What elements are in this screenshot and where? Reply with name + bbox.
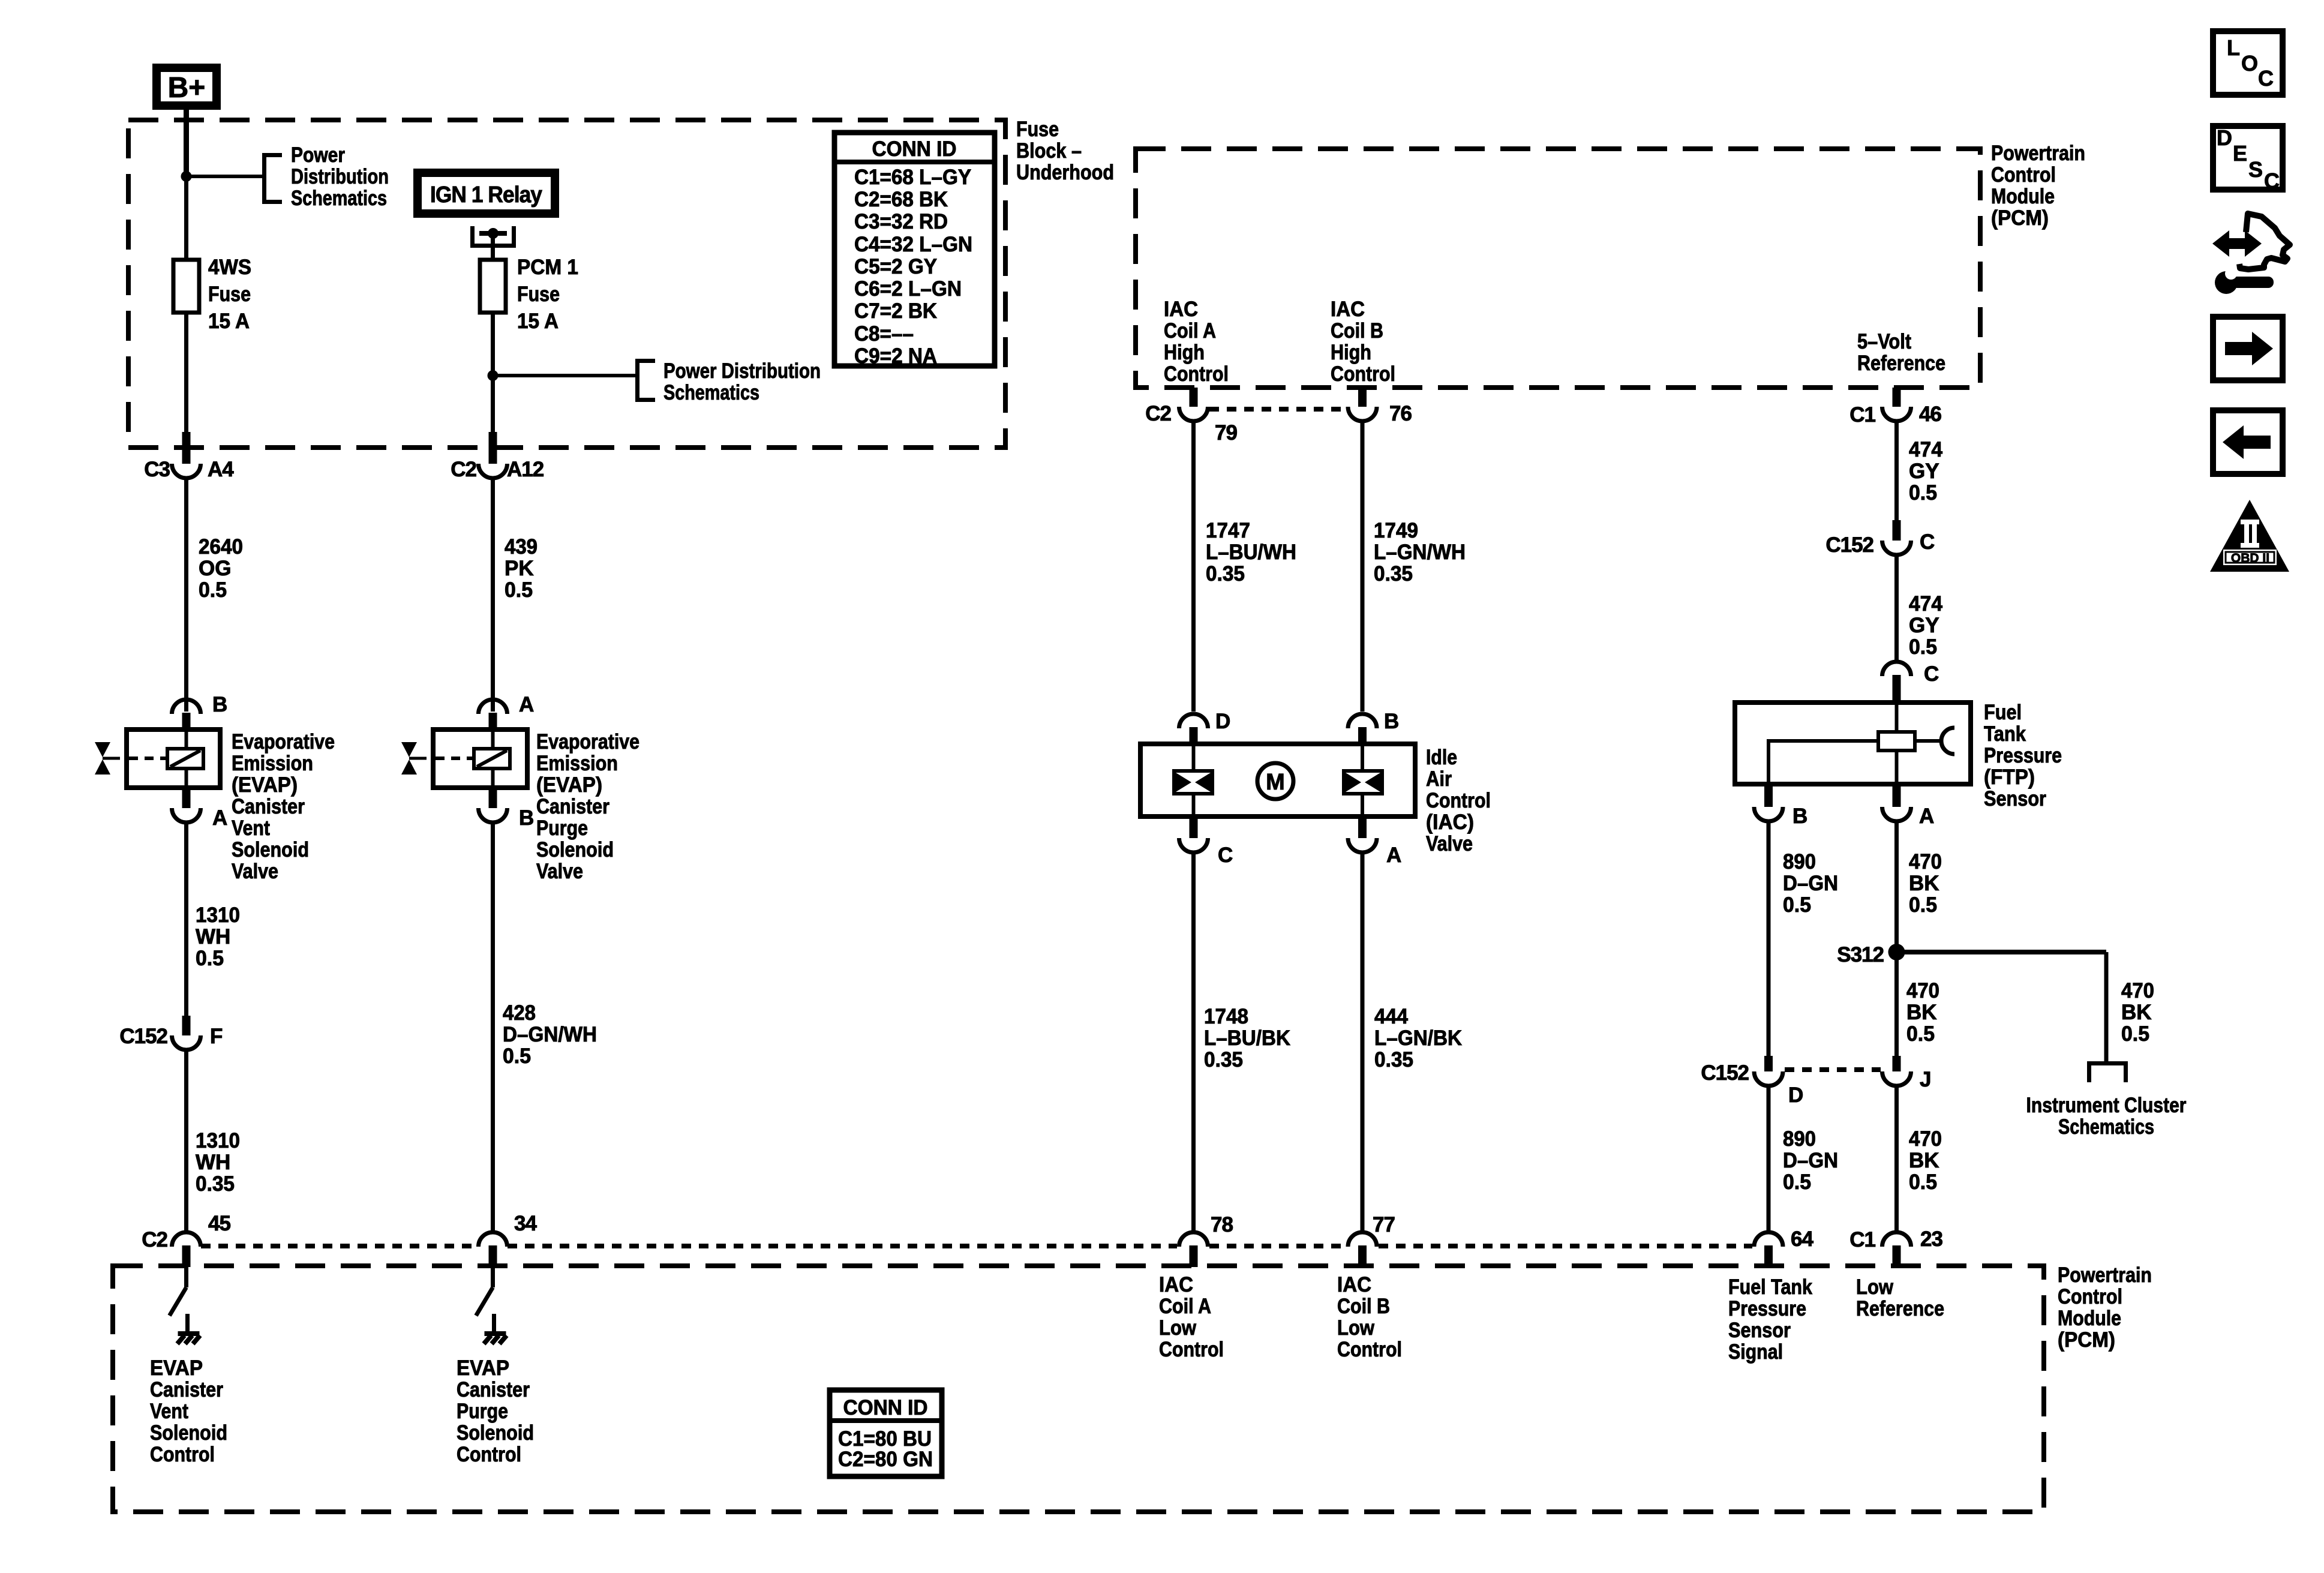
label IAC coil B high control: [1331, 298, 1395, 386]
label 77: [1373, 1213, 1395, 1236]
label idle air control IAC valve: [1426, 746, 1491, 855]
connector pin B of EVAP vent solenoid: [172, 700, 201, 731]
icon back arrow box: [2213, 410, 2283, 474]
svg-text:79: 79: [1215, 421, 1237, 445]
wire 474 GY (PCM 46 to C152 C): [1894, 422, 1899, 520]
icon LOC box: [2213, 31, 2283, 95]
wire 2640 OG (C3 A4 to EVAP vent B): [184, 479, 188, 712]
label wire 470 BK 0.5 (FTP A): [1909, 850, 1942, 917]
connector pin B of EVAP purge solenoid: [479, 788, 508, 822]
label 64: [1791, 1227, 1813, 1251]
svg-text:C3: C3: [144, 458, 170, 481]
wire coil A to pin C: [1192, 794, 1196, 816]
label wire 890 D-GN 0.5 (upper): [1783, 850, 1838, 917]
connector pin B of FTP sensor: [1754, 784, 1783, 821]
svg-text:C2: C2: [142, 1228, 167, 1251]
label A12: [507, 458, 544, 481]
pointer bracket to instrument cluster schematics: [2089, 1064, 2126, 1083]
svg-text:C: C: [1924, 662, 1939, 686]
wire S312 to instrument cluster branch: [1897, 950, 2107, 954]
connector C2 pin 79 at PCM: [1179, 388, 1208, 421]
svg-text:D: D: [1215, 710, 1230, 733]
purge valve symbol: [401, 742, 427, 775]
connector pin A of FTP sensor: [1882, 784, 1911, 821]
svg-text:CONN ID: CONN ID: [843, 1396, 928, 1419]
svg-text:23: 23: [1920, 1227, 1942, 1251]
connector C2 pin A12 below fuse block: [479, 432, 508, 478]
EVAP purge solenoid coil: [474, 749, 510, 769]
vent valve symbol: [95, 742, 120, 775]
label B (EVAP purge): [519, 806, 533, 830]
svg-text:C152: C152: [119, 1025, 167, 1048]
label power distribution schematics (right): [663, 359, 821, 404]
label evaporative emission EVAP canister vent solenoid valve: [232, 730, 335, 883]
powertrain control module PCM dashed box (bottom): [113, 1266, 2044, 1512]
connector pin C of IAC valve: [1179, 816, 1208, 852]
label B (EVAP vent): [212, 693, 227, 716]
svg-text:470BK0.5: 470BK0.5: [1906, 979, 1939, 1046]
svg-text:A12: A12: [507, 458, 544, 481]
label 78: [1211, 1213, 1233, 1236]
svg-text:34: 34: [514, 1212, 537, 1235]
battery positive B+ terminal box: [157, 68, 217, 106]
label C1 (pin 46): [1849, 403, 1875, 427]
inline connector C152 pin D: [1754, 1056, 1783, 1086]
connector C2 pin 45 at PCM bottom: [172, 1232, 201, 1267]
wire 474 GY (C152 to FTP C): [1894, 556, 1899, 661]
pin row dotted line 79-76: [1209, 407, 1347, 412]
label low reference: [1856, 1275, 1944, 1320]
label wire 1310 WH 0.35: [196, 1129, 240, 1196]
svg-text:F: F: [210, 1025, 223, 1048]
wire into vent solenoid coil: [185, 731, 188, 749]
icon OBD II triangle: [2210, 500, 2289, 572]
label IAC coil A low control: [1159, 1273, 1224, 1361]
svg-text:A: A: [1919, 804, 1934, 828]
svg-text:46: 46: [1919, 403, 1941, 426]
wire purge coil to pin B: [491, 769, 495, 788]
label EVAP canister purge solenoid control: [457, 1356, 534, 1466]
IAC motor M: [1257, 763, 1293, 799]
label A (EVAP purge): [519, 693, 534, 716]
label C2 (pin 45): [142, 1228, 167, 1251]
wire 4WS fuse to connector C3-A4: [184, 313, 188, 448]
label evaporative emission EVAP canister purge solenoid valve: [536, 730, 639, 883]
wire junction down to 4WS fuse: [184, 176, 188, 260]
node junction on PCM1 fuse output: [488, 370, 499, 381]
svg-text:J: J: [1920, 1068, 1930, 1091]
svg-text:470BK0.5: 470BK0.5: [1909, 850, 1942, 917]
label A4: [208, 458, 234, 481]
EVAP vent solenoid coil: [167, 749, 203, 769]
vent solenoid mechanical dashed link: [129, 757, 167, 760]
inline connector C152 pin C: [1882, 520, 1911, 555]
connector pin 76 at PCM: [1348, 388, 1377, 421]
node junction on B+ feed: [181, 171, 192, 182]
wire FTP internal signal tap: [1768, 741, 1878, 783]
label 4WS fuse: [208, 256, 251, 333]
wire 890 D-GN (C152 D to PCM 64): [1767, 1087, 1771, 1230]
wire into purge solenoid coil: [491, 731, 495, 749]
EVAP canister purge solenoid control driver switch: [476, 1267, 507, 1344]
fuse block - underhood dashed box: [128, 120, 1005, 448]
wire 444 L–GN/BK (IAC A to PCM 77): [1361, 854, 1365, 1230]
label IAC coil B low control: [1337, 1273, 1402, 1361]
label fuel tank pressure sensor signal: [1728, 1275, 1812, 1364]
relay contact symbol of IGN 1 relay: [470, 226, 516, 246]
svg-text:78: 78: [1211, 1213, 1233, 1236]
label wire 474 GY 0.5 (upper): [1909, 438, 1943, 505]
wire 1310 WH (C152 F to PCM 45): [184, 1051, 188, 1230]
FTP pressure port arc: [1941, 728, 1954, 754]
label B (IAC): [1384, 710, 1398, 733]
label wire 1748 L–BU/BK 0.35: [1204, 1005, 1290, 1071]
wire 1749 L–GN/WH (PCM 76 to IAC B): [1361, 422, 1365, 712]
EVAP canister vent solenoid control driver switch: [170, 1267, 200, 1344]
IGN 1 Relay box: [418, 173, 555, 214]
wire 470 BK (S312 to C152 J): [1894, 952, 1899, 1056]
icon DLC wrench: [2215, 268, 2274, 294]
label C2 (A12 row): [451, 458, 476, 481]
wire 1310 WH (EVAP vent A to C152 F): [184, 824, 188, 1016]
label A (IAC): [1386, 843, 1401, 867]
svg-text:C1: C1: [1849, 1228, 1875, 1251]
label wire 470 BK 0.5 (below S312): [1906, 979, 1939, 1046]
connector pin 78 at PCM bottom: [1179, 1232, 1208, 1267]
wire 470 BK (FTP A to S312): [1894, 822, 1899, 952]
pin row dotted line D-J: [1785, 1067, 1881, 1072]
pin row dotted line 45-34: [201, 1244, 478, 1248]
svg-text:C152: C152: [1701, 1061, 1749, 1085]
connector C1 pin 46 at PCM: [1882, 388, 1911, 421]
svg-text:C: C: [1218, 843, 1233, 867]
wire instrument cluster branch down: [2104, 952, 2109, 1061]
label IAC coil A high control: [1164, 298, 1229, 386]
inline connector C152 pin F: [172, 1016, 201, 1050]
wire vent coil to pin A: [185, 769, 188, 788]
connector pin A of IAC valve: [1348, 816, 1377, 852]
svg-text:C152: C152: [1825, 533, 1873, 557]
label D: [1215, 710, 1230, 733]
connector C1 pin 23 at PCM bottom: [1882, 1232, 1911, 1267]
connector pin A of EVAP vent solenoid: [172, 788, 201, 822]
wire 439 PK (C2 A12 to EVAP purge A): [491, 479, 495, 712]
label wire 444 L–GN/BK 0.35: [1374, 1005, 1462, 1071]
wire 428 D–GN/WH (EVAP purge B to PCM 34): [491, 824, 495, 1230]
inline connector C152 pin J: [1882, 1056, 1911, 1086]
svg-text:M: M: [1266, 770, 1285, 795]
FTP sense resistor element: [1878, 732, 1915, 751]
connector pin C of FTP sensor: [1882, 662, 1911, 704]
label wire 428 D–GN/WH 0.5: [503, 1001, 597, 1068]
wire resistor to pressure port: [1915, 739, 1940, 743]
pin row dotted line 77-64: [1379, 1244, 1752, 1248]
label B (FTP): [1792, 804, 1807, 828]
svg-text:A: A: [212, 806, 227, 830]
wire 1747 L–BU/WH (PCM 79 to IAC D): [1191, 422, 1196, 712]
label 5-volt reference: [1857, 330, 1945, 375]
label power distribution schematics (left): [291, 143, 389, 210]
connector pin 77 at PCM bottom: [1348, 1232, 1377, 1267]
connector pin 64 at PCM bottom: [1754, 1232, 1783, 1267]
wire 5V through FTP sensor: [1895, 704, 1899, 783]
label C (C152 row): [1920, 530, 1935, 554]
connector pin B of IAC valve: [1348, 714, 1377, 745]
svg-text:4WSFuse15 A: 4WSFuse15 A: [208, 256, 251, 333]
label wire 439 PK 0.5: [505, 535, 538, 602]
label J (C152): [1920, 1068, 1930, 1091]
wire 1748 L–BU/BK (IAC C to PCM 78): [1191, 854, 1196, 1230]
wire pin B into coil B: [1361, 745, 1364, 771]
label 76: [1389, 402, 1412, 425]
label wire 474 GY 0.5 (lower): [1909, 592, 1943, 659]
svg-text:A: A: [1386, 843, 1401, 867]
label C152 (pin F): [119, 1025, 167, 1048]
fuse F1 4WS 15A symbol: [173, 260, 199, 313]
connector pin D of IAC valve: [1179, 714, 1208, 745]
svg-text:S312: S312: [1837, 943, 1884, 966]
svg-text:C1=80 BUC2=80 GN: C1=80 BUC2=80 GN: [838, 1427, 933, 1471]
label D (C152): [1788, 1083, 1803, 1107]
svg-text:C2: C2: [451, 458, 476, 481]
label wire 470 BK 0.5 (instrument cluster): [2121, 979, 2154, 1046]
label 23: [1920, 1227, 1942, 1251]
label wire 470 BK 0.5 (lower): [1909, 1127, 1942, 1194]
svg-text:B: B: [212, 693, 227, 716]
label instrument cluster schematics: [2026, 1094, 2187, 1139]
wire junction to power distribution pointer: [187, 175, 263, 178]
label A (EVAP vent): [212, 806, 227, 830]
label C2 (pin 79): [1145, 402, 1171, 425]
svg-text:B+: B+: [168, 72, 206, 104]
label powertrain control module PCM (top right): [1991, 142, 2085, 230]
fuel tank pressure FTP sensor box: [1735, 703, 1971, 784]
powertrain control module PCM dashed box (top): [1136, 149, 1980, 388]
wire pin D into coil A: [1192, 745, 1196, 771]
svg-text:IGN 1 Relay: IGN 1 Relay: [430, 182, 542, 208]
svg-text:B: B: [1792, 804, 1807, 828]
svg-text:439PK0.5: 439PK0.5: [505, 535, 538, 602]
svg-text:B: B: [1384, 710, 1398, 733]
fuse F2 PCM 1 15A symbol: [480, 260, 506, 313]
icon forward arrow box: [2213, 317, 2283, 380]
svg-text:A: A: [519, 693, 534, 716]
purge solenoid mechanical dashed link: [436, 757, 474, 760]
pin row dotted line 34-78: [508, 1244, 1177, 1248]
svg-text:77: 77: [1373, 1213, 1395, 1236]
svg-text:OBD II: OBD II: [2231, 551, 2269, 565]
connector pin 34 at PCM bottom: [479, 1232, 508, 1267]
splice node S312: [1888, 944, 1905, 960]
label C152 (pin C): [1825, 533, 1873, 557]
svg-text:64: 64: [1791, 1227, 1813, 1251]
wire PCM1 fuse to connector C2-A12: [491, 313, 495, 448]
wire B+ down to junction: [184, 110, 189, 176]
svg-text:A4: A4: [208, 458, 234, 481]
IAC coil B winding symbol: [1344, 771, 1382, 794]
label fuse block - underhood: [1016, 118, 1114, 184]
table CONN ID PCM: [830, 1390, 942, 1476]
IAC coil A winding symbol: [1174, 771, 1212, 794]
idle air control IAC valve box: [1140, 744, 1415, 816]
label 46: [1919, 403, 1941, 426]
EVAP canister purge solenoid valve box: [433, 730, 527, 788]
label wire 1310 WH 0.5: [196, 903, 240, 970]
svg-text:76: 76: [1389, 402, 1412, 425]
label F (C152): [210, 1025, 223, 1048]
svg-text:B: B: [519, 806, 533, 830]
label wire 890 D-GN 0.5 (lower): [1783, 1127, 1838, 1194]
label 79: [1215, 421, 1237, 445]
pointer bracket to power distribution schematics: [265, 155, 283, 202]
label PCM 1 fuse: [517, 256, 578, 333]
label C3: [144, 458, 170, 481]
table CONN ID fuse block: [834, 133, 995, 368]
label C1 (pin 23): [1849, 1228, 1875, 1251]
svg-text:C1: C1: [1849, 403, 1875, 427]
svg-text:470BK0.5: 470BK0.5: [1909, 1127, 1942, 1194]
label 34: [514, 1212, 537, 1235]
connector pin A of EVAP purge solenoid: [479, 700, 508, 731]
wire relay to PCM 1 fuse: [491, 233, 495, 260]
svg-text:CONN ID: CONN ID: [872, 137, 957, 161]
label 45: [208, 1212, 230, 1235]
label wire 1747 L–BU/WH 0.35: [1206, 519, 1296, 586]
connector C3 pin A4 below fuse block: [172, 432, 201, 478]
svg-text:C: C: [1920, 530, 1935, 554]
label fuel tank pressure FTP sensor: [1984, 701, 2062, 810]
icon DESC box: [2213, 125, 2283, 193]
svg-text:C2: C2: [1145, 402, 1171, 425]
label powertrain control module PCM (bottom right): [2058, 1263, 2152, 1352]
icon DLC connector outline: [2239, 214, 2290, 269]
label wire 1749 L–GN/WH 0.35: [1374, 519, 1466, 586]
svg-text:D: D: [1788, 1083, 1803, 1107]
label S312: [1837, 943, 1884, 966]
wire coil B to pin A: [1361, 794, 1364, 816]
label C (IAC): [1218, 843, 1233, 867]
pointer bracket to power distribution schematics (right): [638, 361, 656, 400]
label C (FTP): [1924, 662, 1939, 686]
svg-text:470BK0.5: 470BK0.5: [2121, 979, 2154, 1046]
EVAP canister vent solenoid valve box: [127, 730, 220, 788]
label C152 (D J row): [1701, 1061, 1749, 1085]
icon DLC double arrow: [2212, 230, 2262, 257]
svg-text:45: 45: [208, 1212, 230, 1235]
pin row dotted line 78-77: [1209, 1244, 1346, 1248]
wire 890 D-GN (FTP B to C152 D): [1767, 822, 1771, 1056]
label EVAP canister vent solenoid control: [150, 1356, 227, 1466]
wire junction to power distribution pointer (right): [493, 374, 636, 377]
label wire 2640 OG 0.5: [199, 535, 243, 602]
label A (FTP): [1919, 804, 1934, 828]
wire 470 BK (C152 J to PCM 23): [1894, 1087, 1899, 1230]
